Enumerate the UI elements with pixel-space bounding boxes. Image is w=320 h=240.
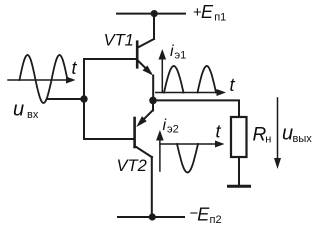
label iэ1 [170,43,186,62]
svg-text:u: u [282,123,293,145]
transistor VT1 (NPN) [137,39,154,76]
transistor VT2 (PNP) [135,110,153,157]
wire input lead [47,98,84,100]
label uвых [282,123,312,146]
svg-text:i: i [163,117,167,134]
wire VT2 emitter from output node [152,100,154,111]
svg-text:VT2: VT2 [117,157,147,175]
svg-text:t: t [230,75,236,95]
svg-text:VT1: VT1 [104,32,134,50]
input time axis [8,79,67,81]
junction bottom rail node [149,213,156,220]
junction output node [149,97,157,105]
wire VT1 base lead [84,58,137,60]
svg-text:u: u [13,99,24,121]
ground [229,185,250,188]
waveform iэ1 half-sine pulses [164,66,184,93]
wire output node to load [153,100,239,117]
graph iэ2 axes [156,130,224,171]
label uвх [13,99,39,122]
wire input vertical bus [83,59,85,139]
svg-text:E: E [197,205,210,225]
svg-text:вых: вых [293,133,313,145]
svg-text:E: E [201,2,214,22]
label -Eп2 [190,205,222,226]
graph iэ1 axes [156,49,226,96]
svg-text:н: н [265,134,271,146]
wire VT2 collector to bottom rail [151,157,153,217]
label iэ2 [163,117,179,136]
wire bottom supply rail [118,216,184,218]
input sine waveform uвх [20,55,68,103]
arrow uвых [274,98,281,169]
svg-text:э1: э1 [175,50,187,62]
svg-text:вх: вх [27,109,39,121]
svg-text:t: t [216,122,222,142]
svg-text:п2: п2 [210,214,222,226]
wire VT1 emitter to output node [152,76,154,102]
wire resistor to ground [238,157,240,185]
resistor Rн [231,117,247,157]
label Rн [253,125,272,146]
wire top supply rail [117,13,185,15]
junction input node [80,95,87,102]
junction top rail node [151,10,158,17]
svg-text:i: i [170,43,174,60]
svg-text:э2: э2 [167,124,179,136]
svg-text:п1: п1 [214,12,226,24]
label +Eп1 [193,2,226,23]
wire VT2 base lead [84,138,134,140]
waveform iэ2 negative half-sine pulse [177,144,198,173]
svg-text:t: t [72,58,78,78]
wire VT1 collector to rail [153,14,155,39]
